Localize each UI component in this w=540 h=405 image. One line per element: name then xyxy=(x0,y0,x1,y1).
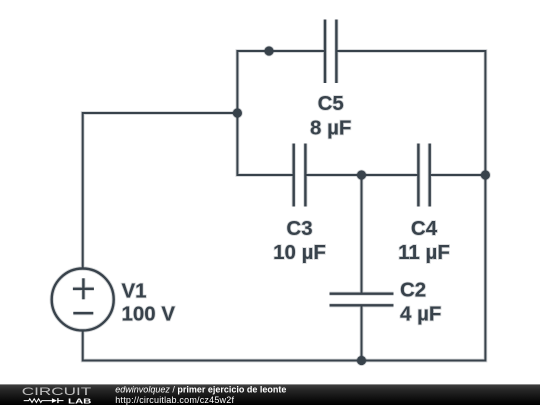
svg-text:C3: C3 xyxy=(286,217,312,240)
svg-text:edwinvolquez / primer ejercici: edwinvolquez / primer ejercicio de leont… xyxy=(115,385,286,395)
svg-text:11 µF: 11 µF xyxy=(398,241,450,264)
svg-text:C4: C4 xyxy=(411,217,438,240)
svg-text:8 µF: 8 µF xyxy=(310,117,351,140)
svg-text:10 µF: 10 µF xyxy=(273,241,326,264)
svg-text:V1: V1 xyxy=(122,280,147,303)
svg-text:http://circuitlab.com/cz45w2f: http://circuitlab.com/cz45w2f xyxy=(115,395,234,405)
svg-text:100 V: 100 V xyxy=(122,303,176,326)
svg-text:4 µF: 4 µF xyxy=(400,303,441,326)
svg-text:LAB: LAB xyxy=(68,396,92,405)
svg-text:C2: C2 xyxy=(400,279,426,302)
svg-text:C5: C5 xyxy=(318,92,344,115)
